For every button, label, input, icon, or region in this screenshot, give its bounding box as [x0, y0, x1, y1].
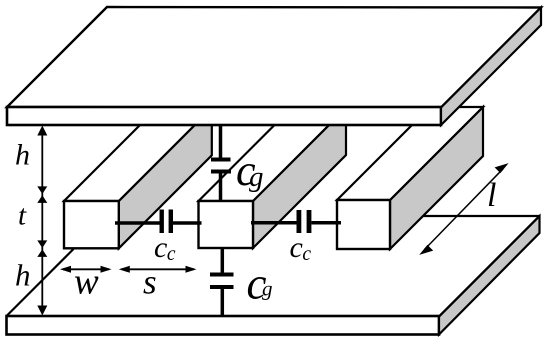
- bottom plate right side face: [439, 216, 540, 335]
- bottom plate front face: [7, 316, 440, 335]
- left bar top face: [64, 108, 212, 201]
- right bar front face: [337, 200, 390, 249]
- capacitor Cg top: lower plate: [211, 170, 231, 174]
- right bar top face: [337, 107, 483, 200]
- left bar side face: [119, 108, 212, 248]
- capacitor Cg bottom: wire from middle bar: [221, 247, 225, 273]
- bottom plate top-left edge: [7, 249, 74, 316]
- arrowhead down to bottom plate: [37, 306, 47, 316]
- left bar front face: [64, 201, 119, 248]
- middle conductor bar: [199, 108, 347, 248]
- capacitor Cg bottom: wire to bottom plate: [221, 289, 225, 316]
- l arrow (length, double headed): [419, 163, 508, 255]
- capacitor Cc left: right plate: [169, 210, 173, 234]
- svg-text:l: l: [487, 177, 496, 214]
- svg-text:s: s: [143, 263, 157, 302]
- right bar side face: [390, 107, 483, 249]
- top plate right side face: [441, 8, 541, 126]
- bottom plate top face: [7, 216, 540, 317]
- s arrow: [119, 266, 197, 273]
- capacitor Cg bottom: lower plate: [210, 285, 234, 289]
- capacitor Cg top: wire to middle bar: [219, 174, 223, 203]
- top plate top face: [7, 7, 541, 108]
- capacitor Cg bottom: upper plate: [210, 273, 234, 277]
- capacitor Cg top: wire: [219, 123, 223, 158]
- capacitor Cc right: wire from middle bar: [251, 221, 297, 225]
- capacitor Cc right: right plate: [307, 210, 312, 233]
- bottom ground plane (3D slab): [7, 216, 540, 335]
- middle bar top face: [199, 108, 347, 201]
- top plate front face: [7, 107, 441, 125]
- middle bar front face: [199, 201, 254, 248]
- w arrow: [60, 266, 112, 273]
- svg-text:t: t: [18, 200, 27, 232]
- right conductor bar: [337, 107, 483, 249]
- bowtie at t/h boundary: [37, 240, 47, 248]
- capacitor Cc left: wire to middle bar: [173, 221, 202, 225]
- arrowhead up to top plate: [37, 126, 47, 136]
- bottom plate back edge: [422, 215, 540, 217]
- left conductor bar: [64, 108, 212, 248]
- svg-text:h: h: [15, 258, 31, 293]
- capacitor Cc right: wire to right bar: [311, 221, 341, 225]
- dimension line (h/t/h): [41, 128, 43, 313]
- svg-text:w: w: [74, 262, 99, 303]
- bottom plate top-right edge: [439, 216, 540, 317]
- middle bar side face: [253, 108, 346, 248]
- capacitor Cg top: upper plate: [211, 158, 231, 162]
- capacitor Cc left: left plate: [160, 210, 164, 234]
- capacitor Cc left: wire from left bar: [115, 221, 160, 225]
- bowtie at h/t boundary: [37, 186, 47, 194]
- capacitor Cc right: left plate: [297, 210, 302, 233]
- top ground plane (3D slab): [7, 7, 541, 125]
- svg-text:h: h: [15, 139, 30, 172]
